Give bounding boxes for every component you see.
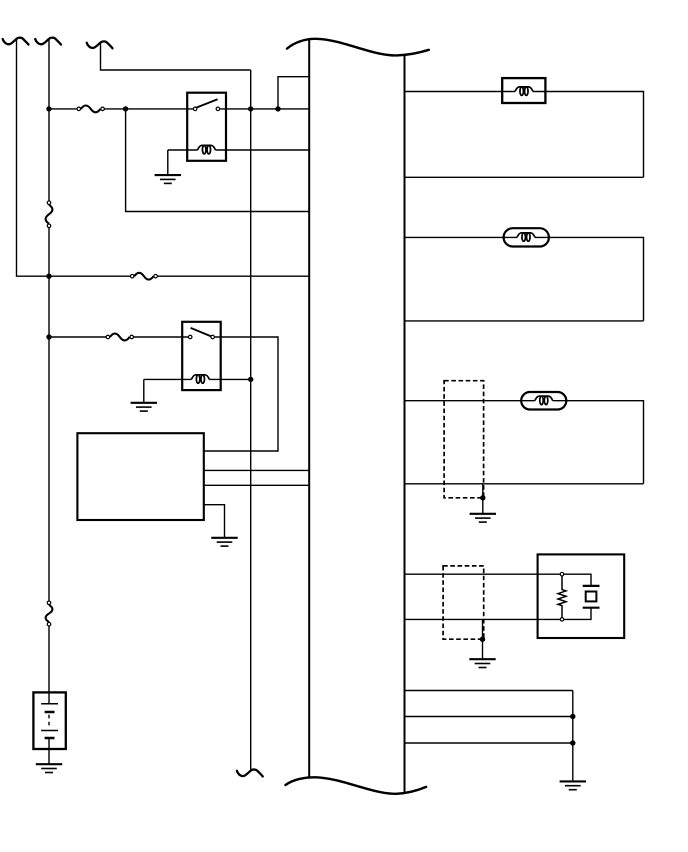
wire module bottom row2 bbox=[405, 716, 573, 718]
fuse F3 bbox=[130, 273, 157, 280]
lamp L1 filament bbox=[517, 233, 535, 242]
horn H1 piezo top plate bbox=[583, 585, 600, 587]
wire ECU ground lead to G3 bbox=[204, 505, 225, 538]
break symbol B3 bbox=[87, 41, 113, 48]
module torn top edge bbox=[287, 39, 429, 56]
wire fusible link FL1 to right rail bbox=[533, 92, 644, 178]
ground G3 ECU bbox=[211, 538, 237, 546]
junction node A bbox=[46, 106, 51, 111]
junction node M bottom rail bbox=[570, 740, 575, 745]
wire module to horn relay box top bbox=[405, 573, 563, 575]
wire W2 segment from fuse F5 to battery bbox=[48, 624, 50, 692]
battery BT1 box bbox=[33, 692, 65, 749]
wire W3 from break B3 down and right to node bus bbox=[101, 43, 251, 70]
horn H1 resistor R1 bbox=[558, 576, 566, 618]
junction node B bbox=[123, 106, 128, 111]
relay K2 switch contact left bbox=[188, 335, 192, 339]
relay K1 switch contact left bbox=[193, 107, 197, 111]
break symbol B4 bottom of bus bbox=[237, 769, 263, 776]
connector C1 dashed box bbox=[444, 381, 484, 498]
junction node D bbox=[275, 106, 280, 111]
wire between fuse F1 and relay K1 bbox=[102, 108, 195, 110]
ground G4 battery bbox=[36, 764, 62, 772]
wire row3 from fuse F3 to module bbox=[156, 275, 310, 277]
horn H1 piezo bottom plate bbox=[583, 607, 600, 609]
wire module bottom row3 bbox=[405, 742, 573, 744]
module torn bottom edge bbox=[286, 777, 427, 794]
relay K1 switch blade bbox=[197, 99, 218, 107]
wire W2 segment from fuse F2 to fuse F5 bbox=[48, 226, 50, 603]
fusible link FL1 box bbox=[502, 78, 545, 103]
wire feed row to relay K1 switch bbox=[49, 108, 79, 110]
module left edge bbox=[308, 40, 310, 778]
wire W1 from break B1 down then right to node F bbox=[17, 40, 50, 277]
relay K1 switch contact right bbox=[216, 107, 220, 111]
junction node H coil to bus bbox=[248, 377, 253, 382]
wire relay K2 coil right to bus junction bbox=[209, 378, 250, 380]
wire relay K1 coil right to module bbox=[215, 149, 309, 151]
junction node G bbox=[46, 334, 51, 339]
fuse F4 bbox=[106, 334, 133, 341]
fusible link FL1 coil bbox=[515, 87, 533, 96]
relay K2 switch contact right bbox=[211, 335, 215, 339]
lamp L2 filament bbox=[535, 396, 553, 404]
break symbol B1 bbox=[3, 38, 29, 45]
horn H1 piezo branch wires bbox=[562, 574, 591, 619]
horn H1 box bbox=[538, 554, 625, 638]
junction node J connector C1 ground bbox=[480, 495, 485, 500]
horn H1 pin bottom bbox=[560, 618, 564, 622]
wire row4 from W2 to fuse F4 bbox=[49, 336, 108, 338]
wire stub from module to bus junction bbox=[278, 77, 309, 109]
wire connector C1 ground tap to G5 bbox=[482, 484, 484, 514]
battery BT1 cells bbox=[41, 692, 58, 749]
wire vertical bus X1 down to bottom break bbox=[250, 70, 252, 770]
fuse F5 bbox=[46, 601, 53, 626]
wire battery negative to ground G4 bbox=[48, 749, 50, 764]
lamp L1 bbox=[504, 228, 549, 246]
wire connector C2 ground tap to G6 bbox=[482, 619, 484, 659]
wire module to horn relay box bottom bbox=[405, 618, 563, 620]
ground G6 connector C2 bbox=[469, 659, 495, 667]
junction node L bottom rail bbox=[570, 714, 575, 719]
wire row3 from node F to fuse F3 bbox=[49, 275, 132, 277]
wire ECU output row2 to module bbox=[204, 484, 309, 486]
ground G5 connector C1 bbox=[470, 514, 496, 522]
wire lamp L2 to right rail 3 bbox=[553, 401, 644, 484]
junction node C bbox=[248, 106, 253, 111]
fuse F1 bbox=[77, 106, 104, 113]
relay K2 box bbox=[182, 322, 221, 390]
connector C2 dashed box bbox=[443, 566, 484, 639]
fuse F2 bbox=[46, 201, 53, 228]
relay K2 switch blade bbox=[191, 328, 212, 337]
wire module to fusible link FL1 bbox=[405, 91, 516, 93]
wire bottom right rail to ground G7 bbox=[572, 691, 574, 782]
wire relay K2 switch output right then down to ECU bbox=[204, 337, 278, 451]
wire right rail 2 return to module bbox=[405, 320, 644, 322]
wire relay K2 coil left to ground G2 bbox=[144, 379, 192, 402]
wire relay K1 coil left to ground G1 bbox=[168, 150, 198, 175]
wire from junction down then right to module row2 bbox=[126, 109, 310, 212]
break symbol B2 bbox=[35, 38, 61, 45]
ground G7 bottom right bbox=[560, 781, 586, 789]
relay K2 coil bbox=[191, 375, 209, 384]
horn H1 pin top bbox=[560, 572, 564, 576]
wire W2 segment from break B2 down to fuse F2 bbox=[48, 40, 50, 204]
junction node F bbox=[46, 274, 51, 279]
wire ECU output row to module bbox=[204, 469, 309, 471]
ECU box U1 bbox=[77, 433, 203, 520]
relay K1 box bbox=[187, 93, 226, 161]
wire right rail return to module row bbox=[405, 176, 644, 178]
wire module bottom row1 bbox=[405, 690, 573, 692]
module right edge bbox=[404, 56, 406, 794]
relay K1 coil bbox=[198, 145, 216, 154]
wire lamp L1 to right rail 2 bbox=[535, 237, 644, 321]
wire row4 from fuse F4 to relay K2 bbox=[132, 336, 191, 338]
junction node K connector C2 ground bbox=[480, 637, 485, 642]
wire module to lamp L1 bbox=[405, 236, 518, 238]
wire right rail 3 return to module bbox=[405, 483, 644, 485]
lamp L2 bbox=[521, 392, 566, 410]
ground G2 relay K2 bbox=[131, 403, 157, 411]
horn H1 piezo element square bbox=[586, 592, 597, 602]
wire relay K1 switch output to module bbox=[218, 108, 309, 110]
wire module through connector C1 to lamp L2 bbox=[405, 400, 535, 402]
ground G1 relay K1 bbox=[155, 175, 181, 183]
